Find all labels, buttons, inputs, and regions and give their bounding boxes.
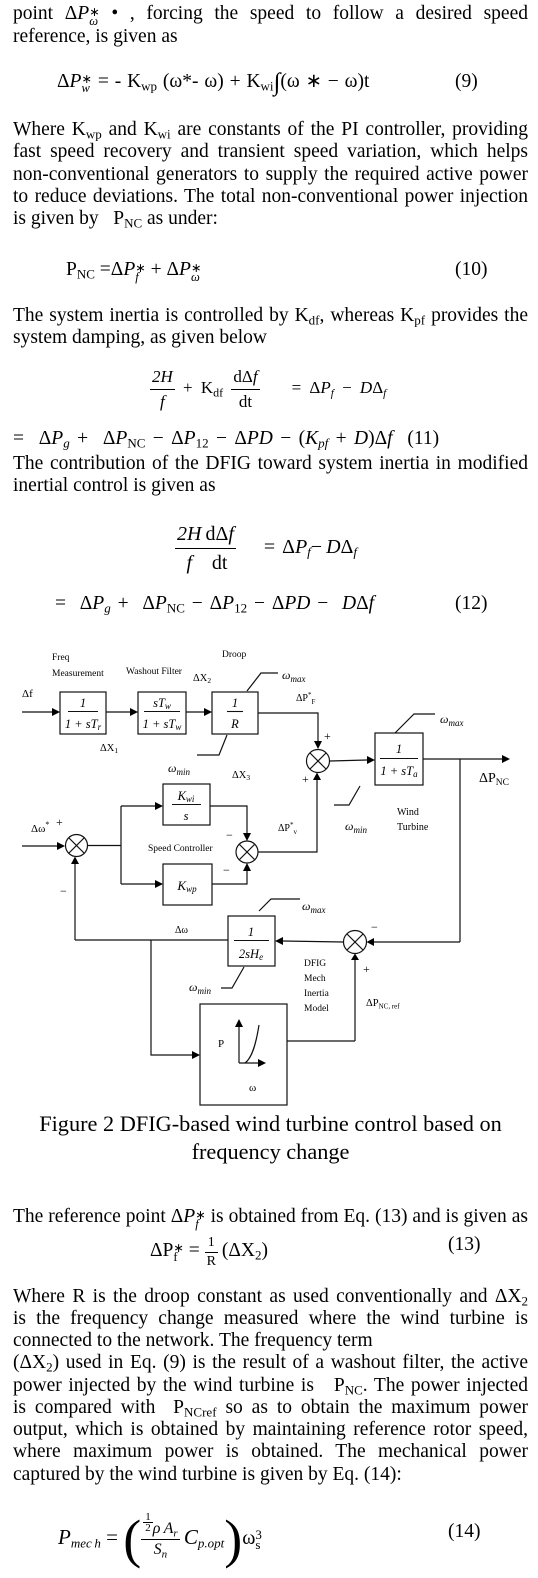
svg-text:−: − — [226, 828, 233, 842]
svg-text:1 + sTa: 1 + sTa — [380, 764, 418, 779]
svg-text:R: R — [230, 717, 239, 731]
svg-text:ωmax: ωmax — [440, 712, 463, 728]
svg-text:1 + sTw: 1 + sTw — [143, 717, 182, 732]
svg-text:Wind: Wind — [397, 807, 419, 818]
svg-text:ΔX2: ΔX2 — [193, 673, 211, 685]
svg-text:1: 1 — [232, 696, 238, 710]
svg-text:P: P — [218, 1038, 224, 1050]
svg-text:ω: ω — [249, 1082, 256, 1094]
svg-text:ΔX1: ΔX1 — [100, 743, 118, 755]
svg-text:Turbine: Turbine — [397, 822, 429, 833]
svg-text:Δω: Δω — [175, 925, 188, 936]
svg-text:1: 1 — [396, 742, 402, 756]
svg-text:−: − — [60, 884, 67, 898]
svg-text:+: + — [56, 815, 63, 829]
svg-text:+: + — [363, 962, 370, 976]
svg-text:1: 1 — [248, 925, 254, 939]
svg-text:+: + — [324, 729, 331, 743]
svg-text:2sHe: 2sHe — [239, 947, 263, 962]
svg-text:ΔPNC, ref: ΔPNC, ref — [366, 998, 400, 1011]
svg-text:ΔX3: ΔX3 — [232, 770, 250, 782]
svg-text:Δf: Δf — [22, 688, 33, 700]
svg-text:ΔPNC: ΔPNC — [479, 771, 509, 788]
svg-text:sTw: sTw — [153, 696, 171, 711]
svg-text:Droop: Droop — [222, 650, 247, 660]
svg-text:Inertia: Inertia — [304, 989, 330, 999]
svg-text:ωmax: ωmax — [282, 668, 305, 684]
svg-text:Speed Controller: Speed Controller — [148, 844, 213, 854]
svg-text:+: + — [302, 772, 309, 786]
svg-text:Model: Model — [304, 1004, 329, 1014]
svg-text:s: s — [184, 809, 189, 823]
svg-text:−: − — [371, 920, 378, 934]
svg-text:ΔP*v: ΔP*v — [278, 821, 298, 836]
svg-text:ωmin: ωmin — [168, 761, 190, 777]
svg-text:ΔP*F: ΔP*F — [296, 691, 316, 706]
svg-text:ωmax: ωmax — [302, 899, 325, 915]
svg-text:1: 1 — [80, 696, 86, 710]
svg-text:Washout Filter: Washout Filter — [126, 667, 183, 677]
svg-text:Mech: Mech — [304, 974, 326, 984]
svg-text:Freq: Freq — [52, 653, 70, 663]
svg-text:−: − — [223, 863, 230, 877]
svg-text:ωmin: ωmin — [189, 980, 211, 996]
svg-text:DFIG: DFIG — [304, 959, 326, 969]
svg-text:1 + sTr: 1 + sTr — [65, 717, 102, 732]
svg-text:Kwi: Kwi — [177, 789, 195, 804]
svg-text:Measurement: Measurement — [52, 669, 104, 679]
svg-text:Δω*: Δω* — [31, 820, 49, 835]
svg-text:ωmin: ωmin — [345, 819, 367, 835]
svg-text:Kwp: Kwp — [176, 878, 197, 894]
